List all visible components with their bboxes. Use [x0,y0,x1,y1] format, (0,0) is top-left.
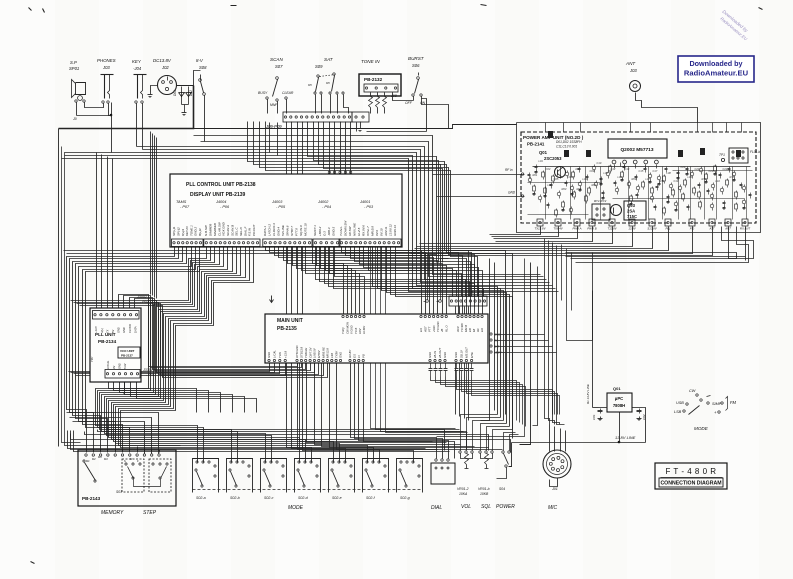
svg-text:C09: C09 [590,169,595,173]
svg-text:on: on [308,83,312,87]
svg-text:C01: C01 [592,414,596,420]
speaker terminals [75,100,77,102]
unit PLL CONTROL UNIT PB-2138 / DISPLAY UNIT PB-2139 [170,174,402,247]
wire MB3 drop [359,363,449,459]
wire [315,95,317,114]
wire top bus [65,156,556,289]
wire stub [137,447,139,453]
svg-text:R11: R11 [660,179,665,183]
switch S04 POWER [502,451,504,453]
svg-text:DATA: DATA [133,326,137,333]
wire PLL link [135,299,311,371]
wire amp right wrap [571,227,754,259]
mode gang dashed link [193,489,423,491]
wire PLL bottom [131,379,245,413]
svg-text:C07: C07 [569,175,574,179]
capacitor [720,188,724,192]
wire bottom extra [71,434,511,453]
wire J11 down [464,307,466,419]
svg-text:C23: C23 [709,169,714,173]
pin [136,454,138,456]
capacitor [698,192,701,197]
wire PLL link [119,295,298,367]
svg-text:J09-P09: J09-P09 [265,124,282,129]
node arrow [271,296,273,303]
svg-text:SCAN: SCAN [270,57,283,62]
wire G3 [270,248,426,316]
wire [422,99,449,129]
unit MAIN UNIT PB-2135 [265,314,488,363]
diode D02 [188,87,190,105]
svg-text:ANT: ANT [625,61,636,66]
dial connector [431,463,455,484]
capacitor [627,182,631,186]
capacitor C01 [599,407,608,409]
svg-text:PB-2143: PB-2143 [82,496,101,501]
svg-text:TONE IN: TONE IN [361,59,380,64]
wire long vertical [381,248,464,432]
svg-text:BURST: BURST [408,56,425,61]
unit POWER AMP UNIT PB-2141 outer loop [517,123,761,233]
capacitor [669,184,673,188]
wire BR bus [472,377,560,415]
wire top bus [143,150,550,283]
connector J3002 P02 [93,311,140,320]
connector J4002 P04 [313,239,340,247]
wire amp right wrap [576,227,749,263]
amp rail 3 [613,198,745,200]
svg-text:VCO UNIT: VCO UNIT [120,349,135,353]
capacitor [555,210,558,215]
wire control feed [487,427,510,451]
capacitor [742,186,746,190]
wire mic vertical [553,243,560,425]
switch S01b sub-box [122,459,144,492]
wire [481,259,490,421]
capacitor [588,188,591,193]
wire stub [159,451,161,453]
wire G2 staircase [96,248,207,463]
svg-text:T13.8V: T13.8V [607,227,617,231]
svg-text:GND: GND [117,363,121,369]
svg-text:MIC: MIC [548,505,558,511]
wire [418,73,420,76]
wire strip drop [340,122,342,175]
svg-text:PHONES: PHONES [97,58,116,63]
wire G2 staircase [114,248,334,463]
svg-text:B(+)3: B(+)3 [198,228,202,236]
svg-text:C19: C19 [674,179,679,183]
connector J4003 P05 [263,239,312,247]
svg-text:C12: C12 [611,167,616,171]
resistor [724,201,726,203]
svg-text:C20: C20 [681,165,686,169]
wire BR bus [441,377,523,425]
resistor [720,173,722,175]
wire [571,253,573,311]
wire [200,75,202,81]
capacitor [714,166,717,171]
svg-text:CLEAR: CLEAR [282,91,294,95]
pin 3 [633,160,637,164]
pins on PLL CTRL top edge [328,171,330,173]
wire BR bus [457,377,553,415]
svg-text:S02-d: S02-d [298,496,309,500]
wire strip drop [345,122,347,175]
wire J11 down [455,307,457,415]
svg-text:C17: C17 [653,169,658,173]
wire G5 [382,248,504,421]
wire G5 [355,248,471,316]
wire G5 [360,248,475,316]
wire MB1 [71,363,275,373]
capacitor [592,166,596,170]
resistor [603,191,605,193]
svg-text:A9V.11: A9V.11 [384,226,388,237]
capacitor [726,180,729,185]
amp internal bus [533,166,751,168]
svg-text:S02-e: S02-e [332,496,342,500]
wire PLL up [107,157,109,311]
svg-text:L04: L04 [583,177,588,181]
pin P.O [689,219,695,226]
svg-text:Q01: Q01 [613,386,621,391]
wire [59,86,194,129]
wire G5 [387,248,507,424]
svg-text:C14: C14 [625,167,630,171]
wire strip drop [350,122,352,175]
pin [85,454,87,456]
resistor [615,181,617,183]
wire G3 [288,248,443,316]
svg-text:M2: M2 [92,457,96,461]
wire outer frame [58,129,60,447]
capacitor [710,194,714,198]
wire band fill [73,422,145,454]
wire [111,103,113,153]
pin TX13.8V [537,219,543,226]
wire [560,429,562,452]
wire MT1 feed [326,248,356,316]
wire top bus [194,136,541,275]
wire pow drop [566,227,737,259]
svg-text:- P04: - P04 [322,205,331,209]
svg-text:PTT.8: PTT.8 [295,228,299,236]
svg-text:GND: GND [454,352,458,358]
svg-text:J03: J03 [629,68,637,73]
svg-text:STEP: STEP [143,510,157,516]
svg-text:PB-2141: PB-2141 [527,142,545,147]
svg-text:C03: C03 [546,167,551,171]
wire MB1 [76,363,286,376]
svg-text:D02: D02 [189,90,193,96]
capacitor [440,363,442,369]
resistor [668,195,670,197]
resistor [566,181,568,183]
svg-text:J3301: J3301 [142,368,153,372]
wire MB2 down [315,363,461,445]
wire bottom long [68,431,426,449]
svg-text:RF in: RF in [505,168,513,172]
svg-text:FI: FI [357,355,361,358]
svg-text:SP01: SP01 [69,66,79,71]
pin [99,454,101,456]
svg-text:S01: S01 [116,490,122,494]
svg-text:13.8V.12: 13.8V.12 [389,224,393,236]
wire [277,123,279,156]
svg-text:13.8V LINE: 13.8V LINE [615,435,636,440]
mic connector J01 [543,450,571,478]
pin [129,454,131,456]
wire bottom extra [98,430,467,450]
svg-text:J01: J01 [551,487,558,491]
wire [330,95,332,114]
wire BR bus [436,377,520,423]
pin 1 [612,160,616,164]
svg-text:TX8.4V: TX8.4V [553,227,563,231]
svg-text:XTAL.7: XTAL.7 [366,226,370,237]
wire [549,425,551,452]
svg-text:Q01: Q01 [539,150,548,155]
unit PB-2143 MEMORY/STEP [78,450,176,506]
wire pow drop [492,227,559,237]
svg-text:S02-b: S02-b [230,496,240,500]
svg-text:SIMP: SIMP [712,402,722,406]
wire G5 [391,248,510,427]
svg-text:FL01-b: FL01-b [750,150,760,154]
svg-text:MODE: MODE [288,505,304,511]
wire pow drop [490,227,541,235]
svg-text:C05: C05 [554,177,559,181]
svg-text:SB.1V: SB.1V [459,349,463,358]
svg-text:S13.8V: S13.8V [647,227,657,231]
wire pow drop [566,227,746,261]
wire [124,383,126,389]
wire MB3 drop [364,363,455,459]
connector J09-P09 [283,112,352,122]
wire [377,93,379,97]
svg-text:GND: GND [494,333,500,337]
svg-text:RX: RX [494,339,498,343]
wire G2 staircase [119,248,368,463]
svg-text:J0: J0 [72,117,77,121]
svg-text:MUTE.10: MUTE.10 [304,223,308,236]
svg-text:L09: L09 [688,175,693,179]
wire mic vertical [557,246,565,425]
wire GND link [437,196,522,198]
svg-text:-600.4: -600.4 [327,227,331,236]
wire MB2 down [337,363,503,450]
svg-text:10KA: 10KA [459,492,468,496]
capacitor [544,188,547,193]
wire top bus [137,147,547,280]
wire MT1 feed [330,248,360,316]
capacitor [552,176,555,181]
svg-text:CONNECTION DIAGRAM: CONNECTION DIAGRAM [660,481,721,487]
svg-text:Rx 13.8V LINE: Rx 13.8V LINE [586,383,590,404]
wire [593,407,599,409]
svg-text:RX.9V.6: RX.9V.6 [362,225,366,236]
wire [367,131,427,133]
wire G2 staircase [100,248,232,463]
svg-text:L07: L07 [646,177,651,181]
pot VR01-b SQL [479,451,481,453]
svg-text:ON: ON [420,101,426,105]
svg-text:LATCH.2: LATCH.2 [268,224,272,236]
capacitor [690,172,694,176]
capacitor [471,363,473,369]
wire G3 [293,248,447,316]
svg-text:POWER: POWER [496,504,515,510]
resistor [699,183,701,185]
capacitor [663,176,666,181]
wire [520,263,531,445]
svg-text:S04: S04 [499,487,505,491]
svg-text:SPAN.6: SPAN.6 [286,225,290,236]
switch S02-g [397,459,423,493]
wire [393,93,414,101]
wire Rx 13.8V [592,253,594,341]
wire PLL link [71,301,315,373]
wire bottom extra [108,428,445,451]
svg-text:RadioAmateur.EU: RadioAmateur.EU [684,69,749,78]
svg-text:S02-g: S02-g [400,496,410,500]
capacitor [456,363,458,369]
wire G3 [302,248,457,297]
wire control feed [473,421,504,451]
wire [384,108,386,114]
svg-text:D01: D01 [173,90,177,96]
switch S02-d [295,459,321,493]
wire [62,147,81,443]
svg-text:PB-2135: PB-2135 [277,326,297,332]
capacitor [570,186,574,190]
wire [422,97,427,132]
amp verticals [545,167,547,220]
pin [143,454,145,456]
svg-text:R15: R15 [730,175,735,179]
wire strip left drops [269,123,271,153]
wire G2 staircase [121,248,374,463]
pin [151,454,153,456]
wire G3 [266,248,422,316]
connector TAMS P07 [172,239,204,247]
svg-text:J02: J02 [161,65,169,70]
svg-text:R05: R05 [577,187,582,191]
switch S02-a [193,459,219,493]
wire PLL up [112,159,114,311]
wire [76,103,78,116]
wire G1 [73,248,183,453]
wire [643,408,646,443]
svg-text:5V.LINE: 5V.LINE [281,224,285,236]
svg-text:L/CAL: L/CAL [273,350,277,358]
svg-text:VOL: VOL [461,504,471,510]
svg-text:S06: S06 [412,63,420,68]
resistor [551,183,553,185]
svg-text:- P01: - P01 [146,373,155,377]
wire strip drop [308,122,437,263]
svg-text:13.8V: 13.8V [628,227,636,231]
transformer cores [548,131,553,138]
resistor R2 [376,97,380,108]
svg-text:+600.2: +600.2 [318,226,322,236]
svg-text:L01: L01 [539,159,544,163]
svg-text:DC13.8V: DC13.8V [153,58,172,63]
svg-text:PLL: PLL [666,227,671,231]
svg-text:PWR A: PWR A [572,227,581,231]
capacitor [705,174,708,179]
connector J4004 P06 [204,239,260,247]
wire [182,104,189,106]
wire pow drop [420,227,613,244]
wire over box [260,122,475,297]
amp rail 4 [673,170,753,172]
wire PLL bottom [125,379,233,413]
wire [413,97,415,101]
svg-text:R03: R03 [562,187,567,191]
wire left-of-box verticals [150,132,152,295]
wire MB3 drop [351,363,437,459]
resistor [750,193,752,195]
capacitor [461,363,463,369]
title block FT-480R [655,463,727,489]
svg-text:CW: CW [689,389,696,393]
svg-text:R07: R07 [592,183,597,187]
capacitor [674,202,678,206]
svg-text:SAT: SAT [324,57,334,62]
wire G3 [279,248,434,316]
svg-text:PLL CONTROL UNIT PB-2138: PLL CONTROL UNIT PB-2138 [186,182,256,188]
svg-text:M3: M3 [98,455,102,459]
wire long bus [67,254,513,439]
svg-text:UP.SW: UP.SW [348,225,352,236]
wire G3 [297,248,453,297]
svg-text:HI-Z.5: HI-Z.5 [357,227,361,236]
wire G1 [70,248,179,453]
DC 13.8V jack J02 [158,76,177,95]
wire stub [144,448,146,453]
wire mic vertical [545,239,550,425]
wire G2 staircase [116,248,340,463]
svg-text:PB: PB [361,354,365,358]
resistor [708,189,710,191]
wire [360,122,362,127]
svg-text:PB-2137: PB-2137 [121,354,133,358]
capacitor [650,196,654,200]
svg-text:OFF: OFF [405,101,413,105]
wire [204,96,206,142]
svg-text:EA: EA [480,328,484,332]
svg-text:LOCAL: LOCAL [106,360,110,369]
wire G4 [329,248,479,297]
wire BR bus [462,377,555,415]
wire PLL link [80,306,328,378]
svg-text:J08: J08 [390,94,397,98]
wire G4 [334,248,484,297]
wire G1 [86,248,200,453]
capacitor [533,186,536,191]
capacitor [678,186,682,190]
pin ATT [709,219,715,226]
wire [384,93,386,97]
wire long vertical [386,248,468,433]
svg-text:PWR B: PWR B [587,227,596,231]
wire [337,95,339,114]
wire strip small drop [356,123,358,132]
svg-text:P10: P10 [478,291,484,295]
svg-text:7808H: 7808H [613,403,625,408]
